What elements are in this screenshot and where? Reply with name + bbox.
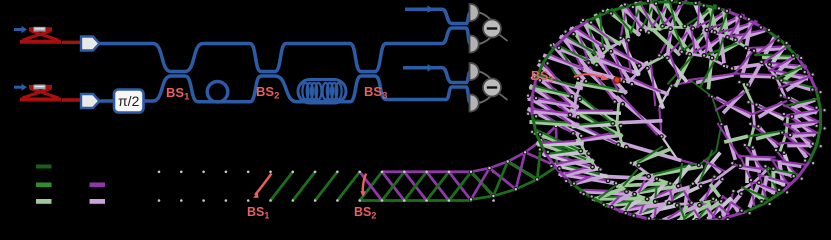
svg-text:BS1: BS1 [166, 85, 190, 103]
svg-text:π/2: π/2 [118, 93, 140, 109]
svg-text:BS2: BS2 [256, 84, 279, 102]
svg-text:BS1: BS1 [247, 205, 269, 220]
svg-text:BS2: BS2 [354, 205, 376, 220]
svg-text:BS3: BS3 [364, 84, 387, 102]
